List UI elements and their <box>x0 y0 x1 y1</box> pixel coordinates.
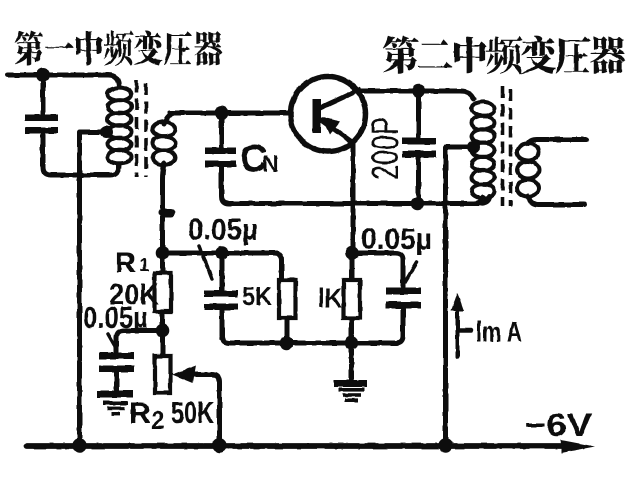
svg-text:lm A: lm A <box>476 317 522 349</box>
svg-text:N: N <box>262 151 279 177</box>
svg-text:2: 2 <box>151 407 165 435</box>
svg-text:0.05µ: 0.05µ <box>361 223 432 256</box>
svg-text:20K: 20K <box>109 279 159 312</box>
svg-text:200P: 200P <box>365 117 407 180</box>
svg-text:R: R <box>115 248 136 280</box>
svg-text:−6V: −6V <box>524 407 593 443</box>
svg-text:50K: 50K <box>171 395 214 430</box>
svg-text:lK: lK <box>318 283 342 314</box>
svg-text:1: 1 <box>139 255 149 275</box>
svg-text:R: R <box>129 397 151 430</box>
svg-text:5K: 5K <box>242 281 272 311</box>
svg-text:0.05µ: 0.05µ <box>188 214 258 247</box>
